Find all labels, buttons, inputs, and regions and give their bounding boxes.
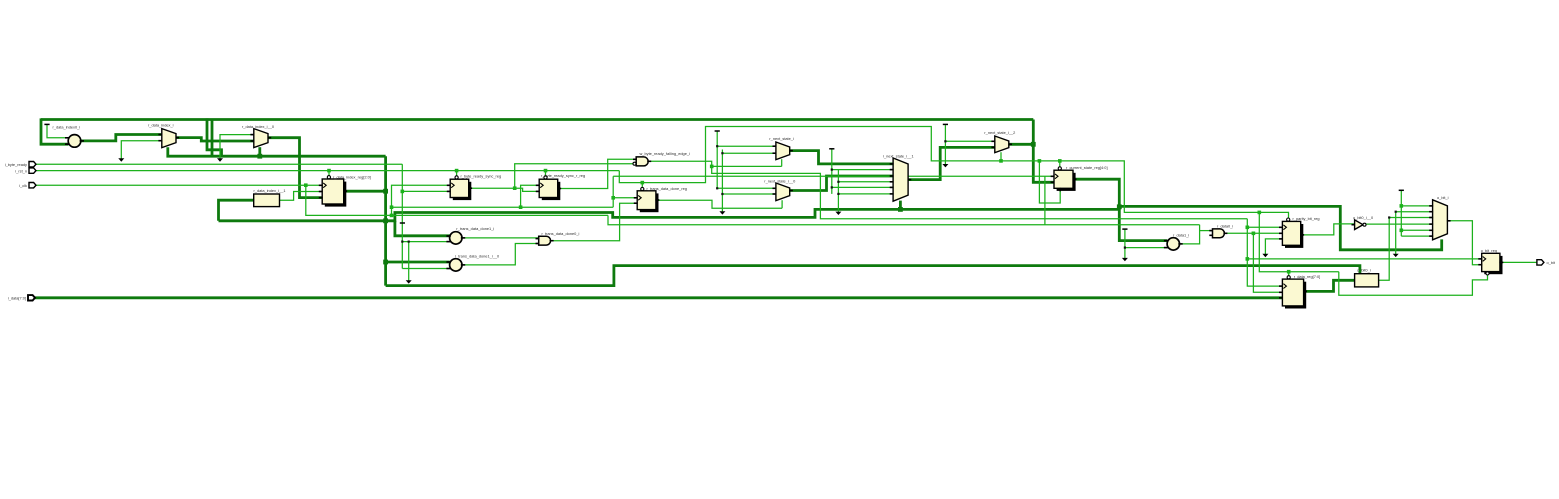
tick elbow done1 hang	[408, 241, 410, 243]
wire state bus east	[1119, 206, 1441, 249]
wire obitmux pin1 stub	[1401, 205, 1432, 207]
const0 tie data1	[1122, 228, 1127, 230]
wire next_state_i out	[789, 151, 893, 164]
svg-text:o_bit0_i: o_bit0_i	[1357, 268, 1371, 273]
bus junction main	[383, 218, 388, 223]
wire clk to done reg	[613, 197, 637, 199]
wire rst to o_bit reg	[1339, 272, 1488, 296]
wire byte_ready to done1	[402, 241, 450, 243]
wire o_bit_i out	[1447, 221, 1481, 265]
wire data1 pin2 stub	[1125, 247, 1167, 249]
junction byte_ready sync	[401, 190, 405, 194]
svg-text:i_clk: i_clk	[19, 183, 27, 188]
net w_byte_ready_falling_edge	[649, 161, 1248, 219]
svg-text:r_next_state_i__0: r_next_state_i__0	[764, 179, 796, 184]
register r_trans_data_done_reg	[634, 186, 687, 212]
mux o_bit_i	[1429, 195, 1450, 240]
wire clk rail3	[613, 175, 1054, 177]
svg-text:r_byte_ready_sync_reg: r_byte_ready_sync_reg	[461, 174, 502, 179]
wire done1 out	[462, 237, 539, 239]
svg-text:i_data[7:0]: i_data[7:0]	[8, 296, 26, 301]
wire bigmux pin2 stub	[832, 169, 893, 171]
wire const stem mux2	[944, 125, 946, 164]
wire r_data_index0 out	[81, 135, 162, 141]
bus junction index Q	[383, 189, 388, 194]
junction obitmux pin1	[1400, 204, 1404, 208]
wire rst to index reg	[328, 171, 330, 177]
const0 tie top-left	[44, 123, 49, 125]
wire rst to current reg	[1059, 161, 1061, 168]
junction clk rail2	[390, 205, 394, 209]
tick elbow bigmux p2	[831, 169, 833, 171]
svg-text:r_data_index_i: r_data_index_i	[148, 123, 174, 128]
net continuation arrow D	[719, 211, 725, 214]
wire r_data_index_i__0 out	[268, 138, 322, 198]
wire gated clk to o_bit reg	[1247, 258, 1481, 260]
wire next_state_i select	[781, 159, 783, 166]
wire sync Q up	[515, 164, 636, 188]
svg-text:r_next_state_i__2: r_next_state_i__2	[984, 130, 1015, 135]
svg-text:o_bit: o_bit	[1547, 260, 1556, 265]
wire obitmux pin6 stub	[1401, 235, 1432, 237]
and gate r_trans_data_done0_i	[536, 231, 580, 245]
junction clk sync_r	[519, 205, 523, 209]
wire done0 out	[551, 203, 637, 241]
mux r_data_index_i	[148, 123, 179, 148]
tick elbow mux__0 p2	[721, 193, 723, 195]
register r_byte_ready_sync_r_reg	[536, 173, 585, 200]
net continuation arrow C	[406, 280, 412, 283]
junction obitmux pin5	[1400, 229, 1404, 233]
gate r_trans_data_done1_i__0	[446, 253, 500, 271]
wire next_state_i__2 out	[1009, 143, 1034, 146]
port i_rst_n	[15, 168, 36, 173]
svg-text:r_data_index_i__0: r_data_index_i__0	[242, 124, 275, 129]
wire clk riser sync	[392, 185, 451, 215]
svg-text:r_parity_bit_reg: r_parity_bit_reg	[1293, 216, 1320, 221]
svg-text:r_current_state_reg[4:0]: r_current_state_reg[4:0]	[1066, 165, 1108, 170]
adder r_data_index0_i	[53, 125, 85, 148]
net continuation arrow A	[118, 158, 124, 161]
gate r_trans_data_done1_i	[446, 226, 494, 244]
wire obitmux pin2 feed	[1396, 212, 1433, 254]
lut o_bit0_i	[1355, 268, 1379, 287]
wire done Q	[656, 200, 782, 208]
mux r_next_state_i__2	[984, 130, 1015, 152]
wire i_data bus	[35, 296, 1282, 299]
bus junction bigmux select	[898, 207, 903, 212]
wire r_data_index_reg Q	[344, 190, 386, 193]
mux r_next_state_i	[769, 136, 794, 159]
junction clk done	[611, 196, 615, 200]
wire top feedback bus	[41, 118, 1033, 121]
wire sync Q to sync_r	[515, 188, 540, 191]
mux r_next_state_i__1	[883, 153, 914, 201]
junction rst current	[1058, 159, 1062, 163]
net continuation arrow F	[942, 164, 948, 167]
tick elbow mux_i p1	[716, 145, 718, 147]
wire index_i pin2 hang	[121, 141, 162, 159]
register r_data_reg[7:0]	[1279, 274, 1320, 308]
register o_bit_reg	[1478, 248, 1503, 275]
junction rst south	[1258, 211, 1262, 215]
bus junction mux3 select	[257, 154, 262, 159]
and gate w_byte_ready_falling_edge_i	[633, 151, 690, 166]
gate r_data1_i	[1164, 233, 1189, 251]
port o_bit	[1537, 260, 1544, 265]
wire bigmux const stem	[831, 149, 833, 194]
wire rst south drop	[1259, 212, 1339, 271]
svg-text:w_byte_ready_falling_edge_i: w_byte_ready_falling_edge_i	[640, 151, 691, 156]
wire rst to sync_r reg	[545, 171, 547, 177]
wire done1_0 out	[462, 244, 539, 265]
junction clk rail	[304, 183, 308, 187]
junction sync Q	[513, 186, 517, 190]
tick elbow bigmux p4	[837, 181, 839, 183]
wire current_state Q	[1073, 179, 1167, 240]
tick elbow mux__0 p1	[716, 187, 718, 189]
wire r_data_reg Q	[1304, 280, 1355, 291]
wire mux__0 pin1 rail	[717, 187, 776, 189]
svg-text:r_trans_data_done1_i__0: r_trans_data_done1_i__0	[455, 253, 500, 258]
wire byte_ready to done1_0	[402, 268, 450, 270]
svg-text:r_data1_i: r_data1_i	[1173, 233, 1189, 238]
svg-text:o_bit_i: o_bit_i	[1437, 195, 1449, 200]
tick elbow mux_i p2	[721, 152, 723, 154]
junction gated clk parity	[1246, 226, 1250, 230]
wire loop left vertical	[41, 118, 69, 144]
label o_bit	[1547, 260, 1556, 265]
wire mux_i pin2 rail	[722, 152, 776, 154]
wire clk drop	[306, 185, 608, 215]
wire r_data_index_i out	[176, 138, 254, 141]
svg-text:r_trans_data_done1_i: r_trans_data_done1_i	[456, 226, 494, 231]
wire rst low branch	[1039, 161, 1060, 203]
wire bus riser V1	[207, 118, 222, 156]
bus junction mux2 out	[1031, 142, 1036, 147]
wire bigmux pin4 stub	[838, 181, 893, 183]
tick elbow bigmux p6	[837, 193, 839, 195]
junction rst sync	[455, 169, 459, 173]
junction rst index	[327, 169, 331, 173]
wire obitmux const stem	[1400, 191, 1402, 236]
wire blob step	[1118, 206, 1121, 209]
wire bigmux vert B	[837, 170, 839, 212]
svg-text:r_data0_i: r_data0_i	[1217, 224, 1233, 229]
wire sync Q	[469, 187, 515, 189]
svg-text:r_next_state_i__1: r_next_state_i__1	[883, 153, 914, 158]
and gate r_data0_i	[1209, 224, 1233, 238]
const0 tie next_state__2	[943, 123, 948, 125]
wire rst step east	[619, 127, 1288, 220]
wire done1 hang stub	[408, 242, 410, 281]
mux r_next_state_i__0	[764, 179, 796, 201]
wire falling_edge clock drop	[1247, 219, 1282, 286]
wire byte_ready to sync	[402, 190, 450, 192]
const0 tie byte_ready cross	[400, 222, 405, 224]
wire rst to sync reg	[456, 171, 458, 177]
port i_clk	[19, 183, 36, 188]
wire inverter out	[1366, 223, 1433, 225]
register r_data_index_reg[2:0]	[319, 174, 371, 206]
lut r_data_index_i__1	[254, 188, 286, 207]
const0 tie o_bit_i	[1399, 189, 1404, 191]
svg-text:i_rst_n: i_rst_n	[15, 168, 27, 173]
junction fe rail	[710, 165, 714, 169]
wire data0 out	[1225, 232, 1282, 234]
wire next_state_i__1 out	[908, 147, 995, 179]
junction rst low branch	[1038, 159, 1042, 163]
wire index fanout vertical	[384, 156, 387, 285]
wire data1 pin2 const	[1124, 230, 1126, 259]
svg-text:r_data_index0_i: r_data_index0_i	[53, 125, 81, 130]
tick elbow data1 b	[1124, 247, 1126, 249]
wire obitmux pin5 stub	[1401, 229, 1432, 231]
wire mux__0 pin2 rail	[722, 193, 776, 195]
register r_parity_bit_reg	[1279, 216, 1320, 248]
wire mux2 pin1 stub	[945, 140, 994, 142]
wire LUT feed riser	[219, 200, 254, 221]
junction data0 out	[1252, 232, 1256, 236]
wire next_state_i__1 select	[899, 201, 902, 210]
wire const to index0	[47, 125, 69, 138]
junction clk drop	[390, 214, 394, 218]
mux r_data_index_i__0	[242, 124, 275, 147]
svg-text:r_trans_data_done_reg: r_trans_data_done_reg	[647, 186, 687, 191]
wire state D riser	[1033, 120, 1054, 183]
wire mux2 select	[1000, 152, 1002, 161]
net continuation arrow H	[1262, 254, 1268, 257]
svg-text:o_bit0_i__0: o_bit0_i__0	[1353, 215, 1374, 220]
const0 tie next_state__1	[829, 148, 834, 150]
tick elbow obitmux p2	[1395, 211, 1397, 213]
wire parity Q	[1301, 224, 1355, 235]
wire const stem muxes	[716, 132, 718, 189]
svg-text:i_byte_ready: i_byte_ready	[5, 162, 27, 167]
wire data1 out	[1179, 225, 1199, 244]
wire o_bit_reg out	[1500, 261, 1537, 263]
wire data0 to r_data	[1253, 233, 1282, 292]
net i_byte_ready	[36, 163, 402, 165]
wire sync_r Q	[558, 159, 637, 188]
net i_clk	[36, 184, 322, 186]
svg-text:o_bit_reg: o_bit_reg	[1481, 248, 1497, 253]
svg-text:r_next_state_i: r_next_state_i	[769, 136, 794, 141]
wire gated clk to parity	[1247, 226, 1282, 228]
bus junction done1_0 feed	[383, 260, 388, 265]
net continuation arrow G	[1122, 258, 1128, 261]
net continuation arrow I	[1393, 254, 1399, 257]
wire obit0 LUT out	[1379, 218, 1433, 281]
wire mux_i pin1 rail	[717, 145, 776, 147]
wire index LUT out	[279, 192, 322, 201]
svg-text:r_data_reg[7:0]: r_data_reg[7:0]	[1294, 274, 1320, 279]
tick elbow bigmux p5	[831, 186, 833, 188]
junction rst mux2 select	[999, 159, 1003, 163]
wire falling_edge select rail	[712, 165, 782, 167]
bus junction current Q	[1117, 204, 1122, 209]
wire main state bus	[219, 209, 1120, 220]
wire rst to r_data reg	[1288, 272, 1290, 277]
tick elbow obitmux p3	[1388, 216, 1390, 218]
wire data1 to data0	[1200, 230, 1213, 232]
junction rst r_data	[1287, 270, 1291, 274]
wire bigmux pin6 stub	[838, 193, 893, 195]
net i_rst_n	[36, 170, 619, 172]
wire bigmux pin5 stub	[832, 186, 893, 188]
junction gated clk o_bit	[1246, 257, 1250, 261]
tick elbow done1 b	[401, 241, 403, 243]
wire index bus lower	[386, 266, 1360, 286]
inverter o_bit0_i__0	[1352, 215, 1374, 230]
wire mux3 select stub	[258, 147, 261, 156]
svg-text:r_trans_data_done0_i: r_trans_data_done0_i	[542, 231, 580, 236]
wire parity pin3 hang	[1265, 239, 1282, 254]
net continuation arrow B	[217, 158, 223, 161]
port i_byte_ready	[5, 162, 36, 167]
wire bus riser V2	[211, 120, 214, 157]
wire next state vert B	[721, 150, 723, 212]
wire clk riser sync_r	[521, 185, 540, 207]
const0 tie next_state	[715, 130, 720, 132]
register r_byte_ready_sync_reg	[447, 174, 501, 201]
wire next_state_i__0 out	[789, 176, 893, 191]
svg-text:r_data_index_i__1: r_data_index_i__1	[254, 188, 286, 193]
wire clk riser current	[1044, 176, 1046, 225]
wire rst to done reg	[641, 183, 643, 189]
junction rst done	[641, 181, 645, 185]
svg-text:r_data_index_reg[2:0]: r_data_index_reg[2:0]	[333, 174, 371, 179]
wire index_i__0 pin1 hang	[220, 135, 254, 159]
wire clk rail4	[608, 215, 1200, 224]
junction rst sync_r	[544, 169, 548, 173]
tick elbow mux2 p1	[944, 140, 946, 142]
wire byte_ready drop	[401, 164, 403, 268]
port i_data[7:0]	[8, 295, 35, 300]
register r_current_state_reg[4:0]	[1051, 165, 1108, 191]
wire done1_0 feed	[386, 261, 450, 264]
svg-text:r_byte_ready_sync_r_reg: r_byte_ready_sync_r_reg	[541, 173, 585, 178]
wire done1 feed	[395, 221, 450, 236]
wire clk rail2	[392, 206, 614, 208]
wire next_state_i__0 select	[781, 200, 783, 208]
wire clk riser done	[612, 176, 614, 207]
wire index select bus	[168, 147, 386, 156]
net continuation arrow E	[835, 212, 841, 215]
